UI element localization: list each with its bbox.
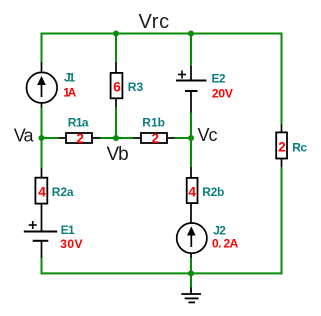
wire J1 top lead — [41, 62, 43, 72]
wire E2 branch upper (top rail to E2) — [190, 33, 192, 67]
svg-text:E1: E1 — [61, 223, 75, 237]
svg-text:Vc: Vc — [198, 125, 218, 145]
node junction bottom (J2/ground/bottom rail) — [188, 270, 194, 276]
svg-text:R2b: R2b — [202, 185, 224, 199]
wire E2 bottom lead — [190, 91, 192, 113]
wire R1a to Vb — [101, 137, 117, 139]
svg-text:30V: 30V — [60, 237, 83, 251]
wire R1b to Vc — [175, 137, 192, 139]
wire bottom rail — [42, 272, 282, 274]
wire left column upper (top rail to J1) — [41, 33, 43, 63]
svg-text:2: 2 — [152, 131, 160, 146]
wire Rc bottom lead — [281, 159, 283, 168]
resistor Rc — [276, 132, 287, 158]
current source J1 — [27, 72, 58, 103]
node Va junction — [39, 135, 45, 141]
battery E1 — [24, 232, 57, 241]
resistor R1b — [141, 133, 167, 143]
wire E2 to Vc — [190, 113, 192, 139]
wire Rc top lead — [281, 125, 283, 132]
plus sign E1 — [29, 221, 37, 229]
wire Vc to R2b — [190, 138, 192, 167]
svg-text:Vrc: Vrc — [139, 11, 170, 33]
wire left column (J1 to Va) — [41, 108, 43, 139]
wire R3 top lead — [115, 62, 117, 72]
wire R1b left lead — [133, 137, 140, 139]
wire R2a bottom lead to E1 — [41, 204, 43, 232]
wire R1a right lead — [93, 137, 101, 139]
wire J2 to bottom rail — [190, 258, 192, 273]
svg-text:4: 4 — [188, 183, 196, 199]
svg-text:R2a: R2a — [52, 185, 74, 199]
battery E2 — [176, 81, 207, 92]
wire J1 bottom lead — [41, 103, 43, 108]
wire Vb to R1b — [116, 137, 133, 139]
wire R2a top lead — [41, 168, 43, 177]
wire E1 bottom lead — [41, 241, 43, 258]
wire R1a left lead — [58, 137, 65, 139]
node junction top-left (R3/top rail) — [113, 31, 119, 37]
wire R3 branch upper (top rail to R3) — [115, 33, 117, 63]
svg-text:20V: 20V — [212, 87, 233, 101]
wire J2 bottom lead — [190, 253, 192, 258]
svg-text:R1b: R1b — [142, 116, 165, 130]
ground — [181, 288, 201, 303]
wire right column lower (Rc to bottom rail) — [281, 167, 283, 274]
svg-text:6: 6 — [113, 80, 121, 95]
svg-text:E2: E2 — [212, 72, 226, 86]
resistor R3 — [111, 73, 123, 98]
svg-text:0. 2A: 0. 2A — [212, 237, 239, 251]
svg-text:2: 2 — [77, 131, 85, 146]
node Vc junction — [188, 135, 194, 141]
svg-text:Va: Va — [14, 126, 35, 146]
svg-text:R1a: R1a — [68, 116, 89, 130]
svg-text:4: 4 — [38, 183, 46, 199]
resistor R1a — [66, 133, 92, 143]
wire right column upper (top rail to Rc) — [281, 33, 283, 125]
wire R2b top lead — [190, 167, 192, 177]
resistor R2b — [187, 178, 198, 203]
resistor R2a — [35, 178, 47, 204]
wire ground stub — [190, 273, 192, 287]
wire R3 branch lower (R3 to Vb) — [115, 107, 117, 138]
wire left column lower (E1 to bottom rail) — [41, 258, 43, 274]
svg-text:Vb: Vb — [107, 144, 129, 165]
current source J2 — [177, 223, 207, 253]
wire top rail (net Vrc) — [42, 33, 282, 35]
node Vb junction — [113, 135, 119, 141]
svg-text:J2: J2 — [213, 224, 226, 238]
svg-text:R3: R3 — [128, 80, 144, 94]
wire E2 top lead — [190, 66, 192, 81]
plus sign E2 — [178, 71, 186, 79]
node junction top-right (E2/top rail) — [188, 31, 194, 37]
svg-text:Rc: Rc — [292, 141, 307, 155]
wire Va to R1a — [42, 137, 59, 139]
wire R2b bottom lead to J2 — [190, 204, 192, 223]
wire left column (Va to R2a) — [41, 138, 43, 168]
wire R3 bottom lead — [115, 99, 117, 107]
wire R1b right lead — [168, 137, 175, 139]
svg-text:2: 2 — [278, 139, 286, 154]
